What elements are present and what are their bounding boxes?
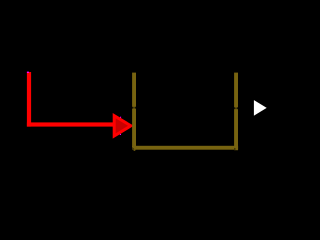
arrowhead of red wire W1 (114, 116, 131, 136)
node marker magenta at W1 top end (27, 72, 29, 73)
wire joint pinch at W2 bottom-left corner (132, 147, 134, 150)
wire W2 olive left vertical segment (132, 73, 136, 150)
wire W2 olive bottom horizontal segment (132, 146, 238, 150)
node marker magenta at arrowhead bottom corner (120, 134, 121, 135)
white output port triangle (254, 100, 267, 116)
wire joint pinch on W2 left vertical (132, 107, 134, 109)
wire W1 red vertical segment (27, 72, 31, 127)
wire W1 red horizontal segment (27, 122, 116, 126)
wire joint pinch at W2 bottom-right corner (234, 148, 236, 151)
wire W2 olive right vertical segment (234, 73, 238, 151)
wire joint pinch on W2 right vertical (234, 107, 236, 109)
node marker magenta at arrowhead top corner (120, 117, 121, 118)
